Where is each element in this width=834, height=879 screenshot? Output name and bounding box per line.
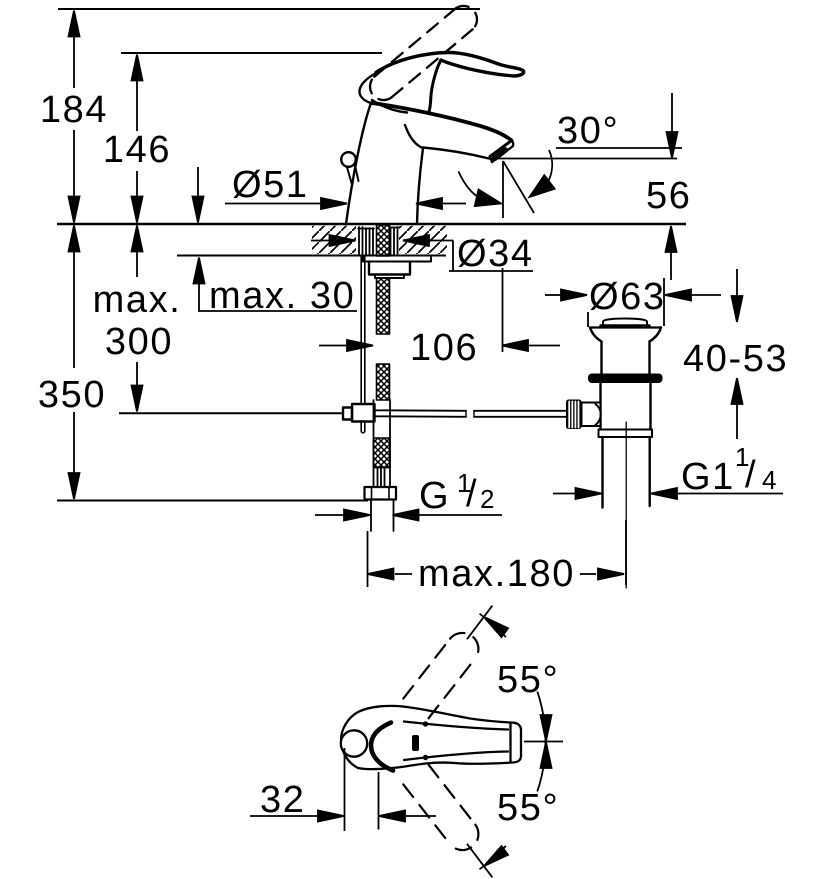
dimension max.300 <box>132 226 143 412</box>
screw dot lower <box>423 755 428 760</box>
30 degree label underline <box>556 147 682 149</box>
spout tip face <box>490 141 512 157</box>
under-deck flange <box>363 256 431 262</box>
dimension Ø51 <box>225 198 466 209</box>
spout armpit inner curve <box>405 125 423 148</box>
svg-text:56: 56 <box>646 175 691 217</box>
svg-text:146: 146 <box>103 129 171 171</box>
dimension 350 <box>69 226 80 500</box>
30 degree leader arrow <box>547 150 552 184</box>
threaded shank below deck <box>377 278 390 334</box>
deck top line <box>57 223 686 226</box>
dimension max. 30 <box>193 167 358 311</box>
pop-up centerline <box>625 422 627 588</box>
dimension G 1/2 <box>315 510 502 521</box>
pop-up rod knob side view <box>341 152 356 167</box>
svg-text:Ø34: Ø34 <box>457 233 534 275</box>
dome bottom shading line <box>372 100 407 113</box>
30 degree datum line <box>492 158 677 160</box>
dimension G 1 1/4 <box>553 488 783 499</box>
svg-text:max.180: max.180 <box>418 553 575 595</box>
pop-up waste cap <box>603 319 647 327</box>
spray 30 degree line <box>503 161 534 213</box>
deck hatching left <box>312 226 356 254</box>
svg-text:40-53: 40-53 <box>683 338 788 380</box>
flexible hose <box>370 500 372 532</box>
svg-text:350: 350 <box>38 374 106 416</box>
30 degree arc <box>458 171 480 198</box>
handle tip inner line <box>509 723 511 763</box>
pop-up lever rod left arm <box>119 412 343 414</box>
dimension 56 <box>666 93 678 280</box>
svg-text:max.: max. <box>93 279 182 321</box>
svg-text:30°: 30° <box>557 110 619 152</box>
threaded hose end crosshatch <box>374 438 391 467</box>
dimension 106 <box>319 340 560 351</box>
deck hatching right <box>399 226 447 254</box>
svg-text:max. 30: max. 30 <box>209 275 355 317</box>
bottom datum line (350 reference) <box>57 500 368 502</box>
pop-up waste collar <box>599 430 653 438</box>
datum line top (184 reference) <box>58 8 480 10</box>
faucet body right edge <box>417 148 423 224</box>
pop-up tailpipe <box>601 437 603 508</box>
svg-text:G1: G1 <box>681 456 735 498</box>
dimension 40-53 <box>732 269 743 439</box>
svg-text:Ø51: Ø51 <box>232 164 309 206</box>
55 degree lower arc <box>480 846 506 869</box>
aerator <box>492 146 513 162</box>
dimension 32 <box>344 748 346 831</box>
lever top edge <box>376 52 524 75</box>
pop-up waste o-ring seal <box>588 374 663 384</box>
mounting nut <box>369 262 410 275</box>
bottom view rotated handle dashed lower <box>403 765 478 850</box>
raised handle dashed outline <box>370 6 477 100</box>
handle inner contour upper <box>404 722 508 730</box>
faucet body left edge <box>346 103 371 224</box>
55 degree upper arc <box>480 614 506 637</box>
svg-text:184: 184 <box>40 89 108 131</box>
55 degree upper ray <box>467 606 492 640</box>
svg-text:300: 300 <box>105 321 173 363</box>
cartridge thick crescent <box>371 723 393 771</box>
dimension 146 <box>132 55 143 223</box>
G1/2 hose nut <box>365 487 397 500</box>
svg-text:55°: 55° <box>497 787 559 829</box>
svg-text:/: / <box>466 473 478 515</box>
lift rod clamp <box>352 404 375 422</box>
dimension max.180 <box>368 520 627 587</box>
hose compression fitting <box>374 400 391 487</box>
svg-text:32: 32 <box>260 779 305 821</box>
spout top edge <box>372 103 512 141</box>
datum line 146 reference <box>121 52 382 54</box>
handle inner contour lower <box>404 752 508 761</box>
lever dome front curve <box>429 60 441 112</box>
svg-text:G: G <box>419 475 450 517</box>
dimension Ø34 <box>311 235 533 271</box>
dome left hinge <box>359 73 376 103</box>
svg-text:106: 106 <box>410 327 478 369</box>
threaded shank crosshatch in deck <box>377 225 390 256</box>
spout plumb line <box>502 161 504 218</box>
svg-text:2: 2 <box>480 484 494 514</box>
pop-up waste lower body <box>599 384 601 430</box>
bottom view centerline <box>524 741 563 743</box>
pop-up rod knob bottom view <box>341 730 367 756</box>
pop-up waste upper body <box>600 342 602 375</box>
bottom view rotated handle dashed upper <box>403 633 478 718</box>
svg-text:/: / <box>745 454 757 496</box>
dimension 184 <box>69 11 80 223</box>
svg-text:55°: 55° <box>497 659 559 701</box>
lever rod end block <box>343 408 352 420</box>
knurled actuator knob <box>566 400 582 430</box>
dimension Ø63 <box>545 278 721 327</box>
deck bottom line <box>177 255 446 257</box>
shank washer in deck <box>358 227 399 255</box>
svg-text:Ø63: Ø63 <box>589 276 666 318</box>
lift rod <box>360 256 362 404</box>
bottom view body outline <box>341 706 521 769</box>
55 degree lower ray <box>467 844 492 878</box>
screw dot upper <box>423 721 428 726</box>
spout underside <box>423 148 489 159</box>
actuator stem <box>582 403 601 427</box>
logo plate <box>412 735 419 751</box>
lever rod right arm <box>375 409 467 412</box>
svg-text:4: 4 <box>762 465 776 495</box>
pop-up waste flange <box>590 326 661 328</box>
